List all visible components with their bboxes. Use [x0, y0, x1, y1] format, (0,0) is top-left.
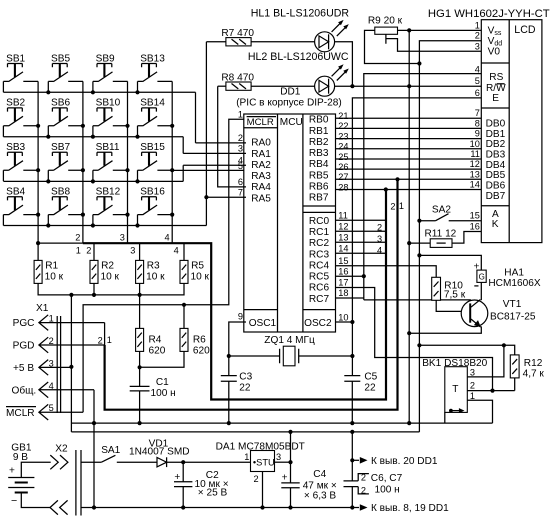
svg-text:C1: C1 [156, 377, 169, 388]
svg-text:RC6: RC6 [309, 283, 330, 294]
svg-text:SB12: SB12 [96, 187, 121, 198]
svg-text:RB4: RB4 [309, 159, 329, 170]
svg-text:2: 2 [254, 474, 259, 484]
svg-text:× 25 В: × 25 В [198, 487, 228, 498]
svg-text:10: 10 [338, 312, 348, 322]
svg-text:3: 3 [120, 233, 125, 243]
button SB8 [48, 197, 83, 226]
resistor R3 [139, 243, 141, 260]
bus group line bottom of keypad [83, 190, 386, 400]
svg-text:G: G [479, 273, 485, 282]
svg-text:RC4: RC4 [309, 260, 330, 271]
wire riser row2 to MCU pin3 [182, 137, 184, 154]
wire X1 pin4 to ground rail and battery minus [93, 390, 95, 508]
button SB3 [3, 152, 38, 181]
svg-text:9: 9 [475, 129, 480, 139]
svg-text:RB3: RB3 [309, 148, 329, 159]
svg-text:R6: R6 [193, 335, 206, 346]
svg-text:R2: R2 [101, 261, 114, 272]
svg-text:3: 3 [276, 452, 281, 462]
connector X1 body bars [57, 316, 60, 413]
svg-text:RC5: RC5 [309, 272, 330, 283]
BK1 pin3 wire [467, 345, 504, 377]
svg-text:1: 1 [238, 109, 243, 119]
svg-text:PGC: PGC [13, 318, 35, 329]
button SB9 [93, 64, 128, 93]
svg-text:−: − [11, 495, 17, 507]
capacitor C2 [181, 460, 185, 464]
svg-text:Общ.: Общ. [12, 384, 37, 396]
wire HL1 to common [335, 42, 353, 86]
button SB15 [138, 152, 173, 181]
svg-text:3: 3 [238, 144, 243, 154]
svg-text:RA4: RA4 [251, 182, 271, 193]
svg-text:SB14: SB14 [140, 98, 165, 109]
svg-text:23: 23 [338, 131, 348, 141]
svg-text:MCU: MCU [280, 117, 303, 128]
wire keypad row 2 [3, 136, 183, 138]
svg-text:4: 4 [165, 233, 170, 243]
svg-text:1: 1 [107, 335, 112, 345]
connector X1 pin3 +5V [39, 360, 72, 376]
svg-text:SB4: SB4 [6, 187, 25, 198]
capacitor C5 [344, 376, 360, 424]
svg-text:RB7: RB7 [309, 193, 329, 204]
temperature sensor BK1 [445, 367, 468, 413]
svg-text:SB11: SB11 [96, 142, 120, 153]
wire +5V branch to MCU pin 20 [351, 432, 353, 508]
svg-text:15: 15 [338, 256, 348, 266]
svg-text:RB1: RB1 [309, 126, 329, 137]
wire keypad column 2 [82, 81, 84, 243]
svg-text:HL1 BL-LS1206UDR: HL1 BL-LS1206UDR [251, 7, 350, 19]
svg-text:RA2: RA2 [251, 160, 271, 171]
svg-text:22: 22 [338, 121, 348, 131]
svg-text:DB3: DB3 [486, 150, 506, 161]
svg-text:2: 2 [75, 233, 80, 243]
svg-text:MCLR: MCLR [6, 408, 35, 419]
button SB16 [138, 197, 173, 226]
svg-text:DB7: DB7 [486, 191, 506, 202]
svg-text:1: 1 [399, 201, 404, 211]
resistor R7 [206, 42, 226, 197]
svg-text:RC1: RC1 [309, 227, 330, 238]
svg-text:X1: X1 [36, 303, 49, 314]
wire resistors bottom common [38, 283, 184, 295]
svg-text:7: 7 [475, 108, 480, 118]
svg-text:HCM1606X: HCM1606X [488, 278, 540, 289]
svg-text:11: 11 [338, 211, 348, 221]
capacitors C6 C7 [344, 481, 359, 487]
wire keypad row 4 [3, 225, 206, 227]
LED HL2 [315, 76, 335, 96]
svg-text:К выв. 8, 19 DD1: К выв. 8, 19 DD1 [371, 503, 449, 514]
svg-text:4: 4 [377, 245, 382, 255]
svg-text:2: 2 [390, 201, 395, 211]
svg-text:9: 9 [238, 311, 243, 321]
svg-text:2: 2 [86, 245, 91, 255]
svg-text:3: 3 [470, 368, 475, 378]
wire LCD pin1 Vss [398, 29, 482, 31]
svg-text:16: 16 [470, 222, 480, 232]
svg-text:2: 2 [49, 336, 54, 346]
svg-text:2: 2 [361, 473, 366, 483]
svg-text:C4: C4 [313, 469, 326, 480]
wire MCU pin6 from R8 [218, 86, 246, 187]
button SB14 [138, 108, 173, 137]
svg-text:25: 25 [338, 152, 348, 162]
svg-text:2: 2 [475, 31, 480, 41]
bus group line X1 PGC PGD to MCU [104, 323, 106, 345]
svg-text:SB15: SB15 [140, 142, 165, 153]
svg-text:R1: R1 [45, 261, 58, 272]
wire MCU pin10 OSC2 [336, 321, 353, 323]
svg-text:BK1 DS18B20: BK1 DS18B20 [422, 358, 487, 369]
capacitor C3 [221, 376, 237, 424]
wire MCU pin3 [183, 152, 246, 154]
transistor VT1 [436, 300, 471, 311]
svg-text:3: 3 [49, 358, 54, 368]
svg-text:RC2: RC2 [309, 238, 330, 249]
svg-text:K: K [492, 219, 499, 230]
svg-text:T: T [452, 384, 458, 395]
svg-text:12: 12 [470, 159, 480, 169]
BK1 pin1 wire [445, 400, 493, 423]
svg-text:RA3: RA3 [251, 171, 271, 182]
svg-text:22: 22 [364, 383, 376, 394]
resistor R4 [139, 295, 141, 329]
svg-text:HG1 WH1602J-YYH-CT: HG1 WH1602J-YYH-CT [428, 8, 550, 20]
svg-text:17: 17 [338, 278, 348, 288]
button SB11 [93, 152, 128, 181]
svg-text:R7 470: R7 470 [221, 28, 254, 39]
svg-text:SB1: SB1 [6, 53, 25, 64]
svg-text:DB5: DB5 [486, 170, 506, 181]
svg-text:RA0: RA0 [251, 138, 271, 149]
svg-text:+: + [174, 472, 180, 483]
LCD HG1 box [481, 20, 542, 243]
svg-text:RC0: RC0 [309, 216, 330, 227]
wire MCU pin4 [183, 164, 246, 166]
buzzer HA1 [419, 255, 481, 270]
svg-text:SB10: SB10 [96, 98, 121, 109]
svg-text:OSC1: OSC1 [249, 318, 277, 329]
wire riser row1 to MCU pin2 [195, 92, 197, 143]
wire MCU pin12 RC1 [336, 230, 387, 232]
wire MCU pin18 RC7 [336, 297, 364, 299]
svg-text:3: 3 [130, 245, 135, 255]
button SB2 [3, 108, 38, 137]
svg-text:R5: R5 [191, 261, 204, 272]
wire MCLR from MCU pin1 down to X1 pin5 [83, 119, 246, 412]
svg-text:C6, C7: C6, C7 [371, 473, 403, 484]
svg-text:26: 26 [338, 162, 348, 172]
MCU data bus wires RB0-RB7 to LCD DB0-DB7 [336, 118, 482, 189]
wire MCU pin7 junction with R7 riser and row4 [206, 196, 246, 198]
capacitor C4 [290, 462, 292, 507]
svg-text:8: 8 [475, 118, 480, 128]
svg-text:+: + [282, 472, 288, 483]
wire +5V to R12 and BK1 pin3 [419, 345, 514, 390]
wire riser row3 to MCU pin4 [182, 165, 184, 181]
svg-text:R8 470: R8 470 [221, 72, 254, 83]
wire 1 from column1 into bus [38, 242, 83, 244]
svg-text:100 н: 100 н [375, 485, 400, 496]
svg-text:HL2 BL-LS1206UWC: HL2 BL-LS1206UWC [248, 51, 349, 63]
svg-text:SB2: SB2 [6, 98, 25, 109]
button SB5 [48, 64, 83, 93]
quartz crystal ZQ1 [283, 346, 295, 366]
svg-text:К выв. 20 DD1: К выв. 20 DD1 [371, 456, 438, 467]
svg-text:RB0: RB0 [309, 115, 329, 126]
svg-text:ZQ1 4 МГц: ZQ1 4 МГц [264, 335, 315, 346]
svg-text:1: 1 [49, 314, 54, 324]
svg-text:2: 2 [470, 381, 475, 391]
svg-text:4: 4 [475, 64, 480, 74]
svg-text:24: 24 [338, 142, 348, 152]
svg-text:SB16: SB16 [140, 187, 165, 198]
wire keypad column 3 [127, 81, 129, 243]
svg-text:+: + [9, 466, 15, 477]
svg-text:E: E [492, 93, 499, 104]
svg-text:RB6: RB6 [309, 182, 329, 193]
svg-text:3: 3 [475, 41, 480, 51]
resistor R1 [34, 260, 42, 283]
svg-text:10 к: 10 к [45, 272, 64, 283]
svg-text:SB7: SB7 [51, 142, 70, 153]
svg-text:10 к: 10 к [191, 272, 210, 283]
svg-text:RB5: RB5 [309, 170, 329, 181]
resistor R2 [93, 243, 95, 260]
svg-text:R3: R3 [147, 261, 160, 272]
svg-text:RA5: RA5 [251, 193, 271, 204]
svg-text:OSC2: OSC2 [304, 318, 332, 329]
wire column4 row3 to MCU pin5 [172, 169, 246, 171]
svg-text:10 к: 10 к [101, 272, 120, 283]
svg-text:18: 18 [338, 288, 348, 298]
svg-text:1N4007 SMD: 1N4007 SMD [129, 446, 190, 457]
resistor R10 [432, 277, 441, 300]
resistor R8 [218, 85, 226, 87]
svg-text:620: 620 [149, 346, 166, 357]
svg-text:13: 13 [470, 169, 480, 179]
svg-text:•STU: •STU [253, 457, 275, 467]
button SB13 [138, 64, 173, 93]
wire keypad row 1 [3, 91, 195, 93]
resistor R11 [430, 239, 452, 248]
wire MCU pin17 RC6 to BK1 [336, 288, 493, 391]
trimmer resistor R9 [375, 27, 398, 34]
wire keypad column 1 [37, 81, 39, 260]
svg-text:SA1: SA1 [101, 445, 120, 456]
connector X1 pin4 common [39, 382, 94, 398]
button SB10 [93, 108, 128, 137]
svg-text:DB2: DB2 [486, 139, 506, 150]
button SB1 [3, 64, 38, 93]
svg-text:R12: R12 [524, 358, 543, 369]
wire R6 bottom joins R4 column [140, 351, 184, 367]
svg-text:5: 5 [475, 76, 480, 86]
svg-text:R11 12: R11 12 [425, 229, 457, 240]
svg-text:7: 7 [238, 187, 243, 197]
svg-text:SB9: SB9 [96, 53, 115, 64]
svg-text:15: 15 [470, 211, 480, 221]
wire MCU pin2 [196, 142, 247, 144]
svg-text:2: 2 [361, 485, 366, 495]
svg-text:7,5 к: 7,5 к [444, 289, 466, 300]
svg-text:SB8: SB8 [51, 187, 70, 198]
svg-text:12: 12 [338, 221, 348, 231]
svg-text:4,7 к: 4,7 к [523, 368, 545, 379]
LED HL1 [315, 32, 335, 52]
svg-text:5: 5 [49, 403, 54, 413]
svg-text:6: 6 [475, 88, 480, 98]
BK1 pin2 wire [467, 390, 514, 392]
svg-text:4: 4 [49, 381, 54, 391]
svg-text:SB6: SB6 [51, 98, 70, 109]
svg-text:HA1: HA1 [504, 267, 524, 278]
resistor R5 [183, 243, 185, 260]
wire MCU pin9 OSC1 [229, 322, 246, 376]
svg-text:RS: RS [489, 72, 503, 83]
button SB6 [48, 108, 83, 137]
svg-text:+5 В: +5 В [13, 363, 34, 374]
svg-text:620: 620 [193, 346, 210, 357]
wire +5V vertical from resistor common to X1 pin3 and +5 rail [70, 295, 72, 432]
wire LCD pin2 Vdd [419, 41, 481, 432]
svg-text:1: 1 [76, 245, 81, 255]
wire LCD pin6 E to OSC2 riser [352, 98, 481, 322]
svg-text:28: 28 [338, 182, 348, 192]
ground rail bottom with arrow to pins 8 19 [350, 505, 354, 509]
svg-text:RB2: RB2 [309, 137, 329, 148]
svg-text:11: 11 [470, 149, 480, 159]
button SB7 [48, 152, 83, 181]
svg-text:R4: R4 [149, 335, 162, 346]
svg-text:MCLR: MCLR [247, 117, 274, 128]
svg-text:21: 21 [338, 111, 348, 121]
svg-text:4: 4 [174, 245, 179, 255]
MCU right pin numbers [338, 111, 348, 322]
wire MCU pin13 RC2 [336, 241, 387, 243]
wire +5V rail from DA1 output [290, 432, 292, 462]
svg-text:22: 22 [239, 383, 251, 394]
wire keypad row 3 [3, 180, 183, 182]
svg-text:RA1: RA1 [251, 149, 271, 160]
svg-text:10: 10 [470, 139, 480, 149]
svg-text:V0: V0 [488, 47, 501, 58]
svg-text:LCD: LCD [514, 24, 536, 36]
svg-text:1: 1 [244, 452, 249, 462]
connector X1 pin5 MCLR [39, 404, 83, 420]
MCU left pin numbers [238, 109, 243, 321]
resistor R12 [510, 355, 519, 378]
svg-text:1: 1 [475, 20, 480, 30]
LCD pin numbers [470, 20, 480, 231]
svg-text:RC7: RC7 [309, 294, 330, 305]
svg-text:2: 2 [238, 133, 243, 143]
svg-text:1: 1 [470, 391, 475, 401]
svg-text:(PIC в корпусе DIP-28): (PIC в корпусе DIP-28) [236, 98, 342, 109]
svg-text:DB6: DB6 [486, 181, 506, 192]
svg-text:PGD: PGD [13, 341, 35, 352]
svg-text:C3: C3 [239, 372, 252, 383]
svg-text:C5: C5 [364, 372, 377, 383]
wire LCD pin4 RS to VT1 base line [364, 74, 482, 300]
wire MCU pin15 RC4 to R10 [336, 266, 437, 278]
wire RS riser corner to VT1 base [364, 299, 471, 301]
svg-text:RC3: RC3 [309, 249, 330, 260]
wire Vss vertical [408, 30, 410, 423]
button SB12 [93, 197, 128, 226]
capacitor C1 [139, 351, 141, 423]
resistor R6 [183, 305, 185, 329]
svg-text:SB13: SB13 [140, 53, 165, 64]
wire riser row4 to MCU pin7 [205, 197, 207, 225]
svg-text:13: 13 [338, 232, 348, 242]
svg-text:BC817-25: BC817-25 [490, 311, 536, 322]
svg-text:VT1: VT1 [503, 299, 522, 310]
svg-text:SB5: SB5 [51, 53, 70, 64]
button SB4 [3, 197, 38, 226]
wire MCU pin16 RC5 [336, 275, 364, 277]
ground rail horizontal y=423 [72, 422, 493, 424]
svg-text:DD1: DD1 [280, 87, 301, 98]
svg-text:9 В: 9 В [13, 452, 28, 463]
connector X1 pin2 PGD [39, 337, 105, 353]
svg-text:× 6,3 В: × 6,3 В [304, 490, 337, 501]
MCU DD1 box [244, 114, 336, 332]
svg-text:R9 20 к: R9 20 к [368, 15, 403, 26]
svg-text:16: 16 [338, 266, 348, 276]
svg-text:14: 14 [470, 180, 480, 190]
junction dots rows [46, 90, 139, 227]
svg-text:27: 27 [338, 172, 348, 182]
connector X1 pin1 PGC [39, 315, 105, 331]
wire HL2 common to LCD pin5 [335, 85, 482, 87]
svg-text:6: 6 [238, 177, 243, 187]
wire keypad column 4 [171, 81, 173, 243]
svg-text:100 н: 100 н [151, 388, 176, 399]
svg-text:DB0: DB0 [486, 118, 506, 129]
svg-text:+: + [474, 261, 480, 272]
wire MCU pin11 RC0 [336, 219, 387, 221]
svg-text:2: 2 [98, 335, 103, 345]
svg-text:X2: X2 [55, 444, 68, 455]
wire MCU pin14 RC3 [336, 252, 387, 254]
svg-text:SB3: SB3 [6, 142, 25, 153]
svg-text:14: 14 [338, 243, 348, 253]
svg-text:10 к: 10 к [146, 272, 165, 283]
